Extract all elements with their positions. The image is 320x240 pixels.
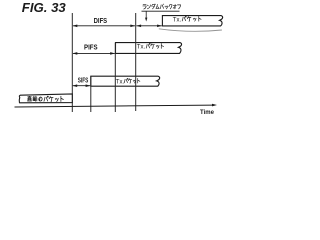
svg-text:PIFS: PIFS — [84, 42, 98, 51]
box Tx packet 2 (PIFS row) — [116, 43, 182, 54]
svg-text:Time: Time — [200, 110, 215, 116]
SIFS arrow — [72, 84, 90, 87]
PIFS arrow — [73, 52, 116, 55]
svg-text:SIFS: SIFS — [78, 76, 89, 85]
time axis — [15, 104, 218, 107]
vertical line V1 (end of previous packet) — [71, 13, 73, 112]
shadow arc under box 1 — [159, 29, 222, 32]
label random backoff (ランダムバックオフ) — [143, 4, 181, 9]
box Tx packet 1 (DIFS row) — [162, 16, 222, 26]
text previous packet (直前のパケット) — [27, 96, 63, 102]
DIFS arrow — [73, 25, 136, 28]
svg-text:FIG. 33: FIG. 33 — [22, 0, 67, 15]
svg-text:DIFS: DIFS — [94, 16, 108, 25]
svg-text:Tx.: Tx. — [173, 18, 182, 24]
vertical line V3 (start of PIFS packet) — [114, 43, 116, 112]
random backoff arrow — [136, 25, 162, 28]
box Tx packet 3 (SIFS row) — [91, 76, 160, 86]
leader random backoff (underline + arrow down) — [142, 11, 180, 21]
vertical line V4 (start of SIFS packet) — [90, 76, 92, 112]
svg-text:Tx.: Tx. — [137, 45, 146, 51]
box previous packet (bottom left) — [19, 94, 72, 103]
svg-text:Tx.: Tx. — [116, 80, 125, 86]
vertical line V2 (end of DIFS) — [135, 13, 137, 111]
